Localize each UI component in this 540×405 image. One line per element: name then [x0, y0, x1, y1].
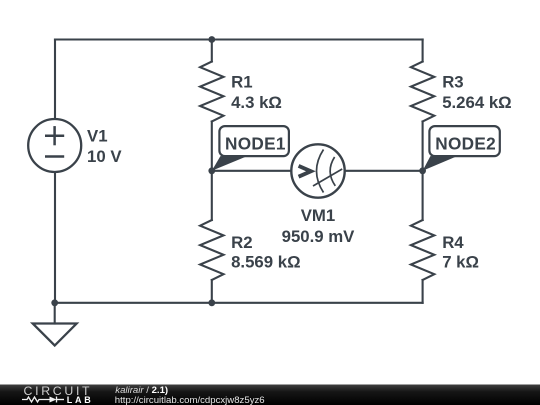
node NODE2 junction dot — [419, 167, 426, 174]
wire R3 bottom lead — [422, 122, 424, 171]
wire left vertical lower (V1 bottom lead) — [54, 172, 56, 303]
wire R4 bottom lead — [422, 280, 424, 303]
wire node1 to voltmeter — [212, 170, 291, 172]
wire top horizontal — [55, 38, 423, 40]
resistor R1 — [200, 62, 223, 122]
resistor R3 — [411, 62, 434, 122]
voltage source V1 — [28, 119, 81, 172]
svg-text:NODE1: NODE1 — [225, 134, 286, 154]
svg-text:NODE2: NODE2 — [435, 134, 496, 154]
svg-text:R4: R4 — [442, 233, 464, 252]
node NODE2 label callout — [423, 126, 500, 171]
svg-text:5.264 kΩ: 5.264 kΩ — [442, 93, 511, 112]
svg-text:8.569 kΩ: 8.569 kΩ — [231, 253, 300, 272]
svg-text:LAB: LAB — [67, 395, 94, 405]
node ground junction dot — [51, 299, 58, 306]
svg-text:R2: R2 — [231, 233, 252, 252]
wire left vertical upper (V1 top lead) — [54, 40, 56, 120]
wire R1 bottom lead — [211, 122, 213, 171]
node NODE1 junction dot — [208, 167, 215, 174]
svg-text:R1: R1 — [231, 73, 252, 92]
svg-text:4.3 kΩ: 4.3 kΩ — [231, 93, 282, 112]
wire R4 top lead — [422, 171, 424, 220]
svg-text:R3: R3 — [442, 73, 463, 92]
svg-text:950.9 mV: 950.9 mV — [282, 227, 356, 246]
voltmeter VM1 — [291, 144, 344, 197]
node NODE1 label callout — [212, 126, 289, 171]
ground — [33, 324, 77, 346]
wire R3 top lead — [422, 40, 424, 62]
node A junction dot top — [208, 36, 215, 43]
footer credit text — [115, 385, 265, 405]
ground stem — [54, 303, 56, 324]
svg-text:7 kΩ: 7 kΩ — [442, 253, 479, 272]
resistor R2 — [200, 220, 223, 280]
wire R2 bottom lead — [211, 280, 213, 303]
svg-text:10 V: 10 V — [87, 147, 122, 166]
resistor R4 — [411, 220, 434, 280]
wire voltmeter to node2 — [345, 170, 423, 172]
CircuitLab logo — [22, 384, 93, 405]
svg-text:V1: V1 — [87, 127, 108, 146]
svg-text:http://circuitlab.com/cdpcxjw8: http://circuitlab.com/cdpcxjw8z5yz6 — [115, 395, 265, 405]
node bottom-middle junction dot — [208, 299, 215, 306]
wire R1 top lead — [211, 40, 213, 62]
wire R2 top lead — [211, 171, 213, 220]
svg-text:VM1: VM1 — [301, 206, 336, 225]
wire bottom horizontal — [55, 302, 423, 304]
